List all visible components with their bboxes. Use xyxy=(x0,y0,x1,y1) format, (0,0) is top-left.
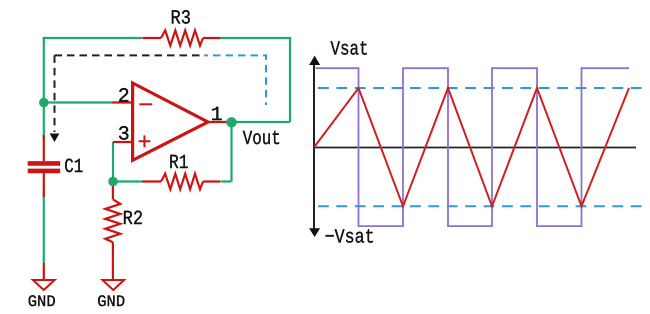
op-amp pin 3 lead xyxy=(113,141,133,143)
axis arrow down xyxy=(309,228,320,237)
wire output node down to R1 row xyxy=(230,122,232,182)
axis arrow up xyxy=(309,56,320,65)
wire left vertical (top corner down to C1) xyxy=(43,37,45,140)
resistor R2 xyxy=(105,184,120,280)
threshold upper dashed line xyxy=(318,87,643,89)
svg-text:R3: R3 xyxy=(171,8,192,31)
op-amp output lead pin 1 xyxy=(208,121,227,123)
svg-text:Vsat: Vsat xyxy=(331,39,369,62)
threshold lower dashed line xyxy=(318,205,643,207)
resistor R3 xyxy=(142,30,220,45)
node B junction dot xyxy=(108,177,118,187)
dashed feedback path black (from arrow up and over) xyxy=(54,55,56,132)
output node junction dot xyxy=(226,117,236,127)
svg-text:R1: R1 xyxy=(169,152,189,175)
svg-text:−Vsat: −Vsat xyxy=(325,227,375,250)
op-amp U1 triangle xyxy=(133,83,208,160)
wire node B to R1 left lead xyxy=(113,180,144,182)
wire left vertical (C1 to GND) xyxy=(43,190,45,263)
wire node A to op-amp pin 2 xyxy=(44,101,114,103)
op-amp minus sign xyxy=(139,103,152,105)
square wave (purple) xyxy=(316,68,630,226)
op-amp pin 2 lead xyxy=(113,101,133,103)
feedback arrowhead xyxy=(50,134,60,143)
svg-text:C1: C1 xyxy=(64,156,83,179)
wire R1 right lead to vertical xyxy=(221,180,232,182)
wire right vertical (top corner down to output node) xyxy=(289,37,291,122)
svg-text:3: 3 xyxy=(118,124,130,147)
node A junction dot xyxy=(39,98,49,108)
svg-text:2: 2 xyxy=(118,86,130,109)
dashed feedback path blue (to output) xyxy=(205,55,266,105)
wire output node to right vertical xyxy=(226,121,290,123)
op-amp plus sign xyxy=(139,135,151,147)
svg-text:GND: GND xyxy=(97,293,125,311)
svg-text:Vout: Vout xyxy=(243,128,281,151)
wire top horizontal left (node A to R3) xyxy=(43,37,142,39)
svg-text:R2: R2 xyxy=(123,208,144,231)
svg-text:GND: GND xyxy=(28,293,56,311)
triangle wave (red) xyxy=(314,88,629,206)
ground symbol right xyxy=(102,280,124,290)
waveform vertical axis xyxy=(313,62,315,232)
svg-text:1: 1 xyxy=(211,104,223,127)
capacitor C1 xyxy=(28,135,61,197)
ground symbol left xyxy=(33,263,55,290)
wire top horizontal right (R3 to right corner) xyxy=(220,37,291,39)
waveform horizontal axis xyxy=(314,147,636,149)
resistor R1 xyxy=(142,174,220,190)
wire op-amp pin 3 down to node B xyxy=(112,142,114,182)
